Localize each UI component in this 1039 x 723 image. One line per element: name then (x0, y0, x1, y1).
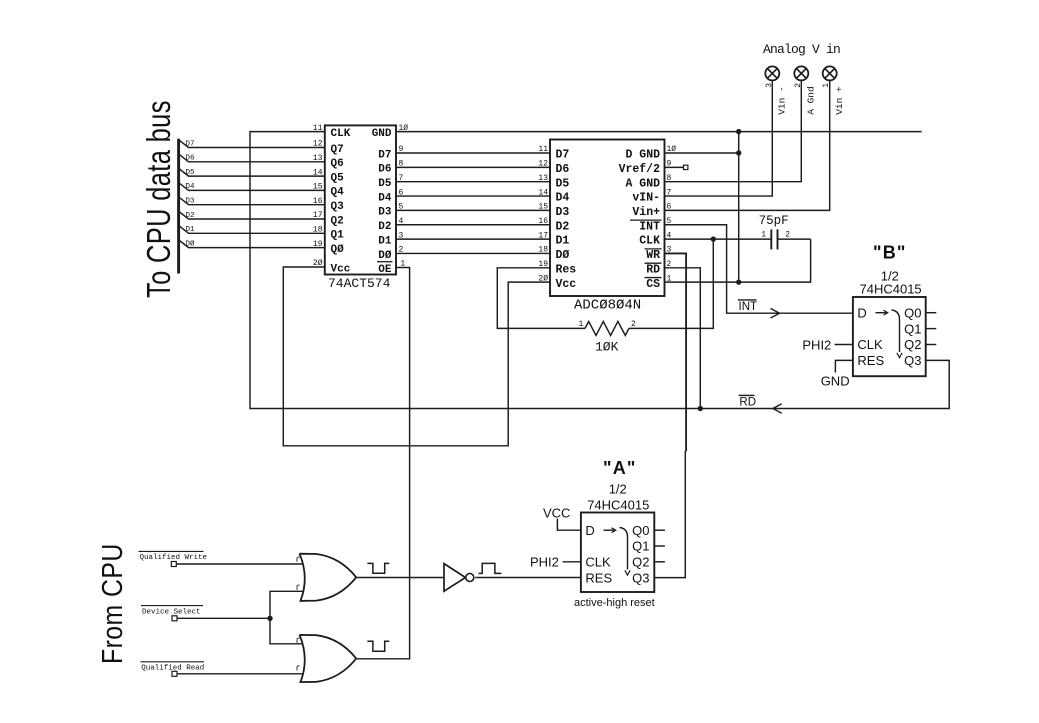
wire: PHI2 stub to U3 CLK (835, 344, 853, 346)
wire D6 (bus entry to U1 pin 13) (180, 155, 325, 162)
svg-text:17: 17 (313, 211, 323, 220)
node: D GND junction (736, 150, 741, 155)
svg-text:A Gnd: A Gnd (806, 86, 817, 115)
svg-text:74ACT574: 74ACT574 (328, 276, 391, 291)
wire: inverter output to U4 RES (475, 577, 581, 579)
pin numbers U2 right (10..1) (667, 145, 677, 283)
svg-text:Vref/2: Vref/2 (619, 163, 661, 176)
svg-text:To CPU data bus: To CPU data bus (141, 100, 178, 298)
wire: U3 Q0 stub (926, 312, 937, 314)
wire D7 (bus entry to U1 pin 12) (180, 140, 325, 147)
svg-text:D3: D3 (378, 207, 392, 219)
svg-text:CLK: CLK (331, 128, 351, 140)
svg-text:Analog V in: Analog V in (763, 42, 840, 57)
svg-text:D4: D4 (186, 183, 196, 191)
svg-text:CLK: CLK (585, 555, 611, 570)
wire: U2 CLK (pin 4) to capacitor C1 (665, 238, 771, 240)
wire: RD net (U1 CLK, long line, U3 Q3 loop) (250, 132, 949, 409)
resistor R1 10K (585, 321, 629, 335)
wire: R1 to U2 CLK pin 4 (629, 239, 713, 328)
svg-text:Q6: Q6 (331, 158, 344, 170)
bus bar: CPU data bus (177, 139, 180, 274)
svg-text:vIN-: vIN- (632, 192, 660, 205)
node: Device Select junction (267, 616, 272, 621)
wire U1 D2 (pin 4) to U2 pin 16 (396, 224, 550, 226)
svg-text:D6: D6 (378, 164, 391, 176)
svg-text:D2: D2 (186, 212, 195, 220)
connector pin: Qualified Read square (172, 671, 177, 676)
svg-text:12: 12 (313, 140, 323, 149)
svg-text:Q4: Q4 (331, 187, 345, 199)
svg-text:2: 2 (785, 230, 790, 239)
node: INT arrow (771, 308, 780, 318)
svg-text:74HC4015: 74HC4015 (587, 497, 649, 512)
svg-text:CLK: CLK (639, 235, 660, 248)
pin numbers U1 left (11,12..19,20) (313, 124, 323, 268)
IC U1 74ACT574 octal latch (325, 125, 396, 275)
connector pin: Qualified Write square (171, 562, 176, 567)
svg-text:From CPU: From CPU (97, 543, 129, 664)
svg-text:D6: D6 (556, 163, 570, 176)
svg-text:1/2: 1/2 (609, 482, 627, 497)
wire: U3 Q1 stub (926, 328, 937, 330)
wire: U2 CS (pin 1) run (665, 239, 811, 282)
svg-text:ADCØ8Ø4N: ADCØ8Ø4N (574, 298, 641, 314)
svg-text:GND: GND (372, 128, 392, 140)
node: RD arrow (773, 404, 782, 414)
wire: U2 Res (pin 19) to resistor R1 (497, 268, 585, 329)
svg-text:D1: D1 (378, 235, 392, 247)
svg-text:1ØK: 1ØK (595, 340, 619, 355)
node: gate input hooks (tiny marks) (297, 557, 300, 670)
wire: C1 right to CS run (778, 238, 810, 240)
svg-text:D7: D7 (556, 149, 570, 162)
wire: Vin- connector to U2 pin 7 (665, 80, 773, 196)
node: RD junction (698, 406, 703, 411)
svg-text:D3: D3 (556, 206, 570, 219)
wire D3 (bus entry to U1 pin 16) (180, 198, 325, 205)
svg-text:Vcc: Vcc (331, 263, 351, 275)
svg-text:18: 18 (313, 226, 323, 235)
svg-text:active-high reset: active-high reset (574, 597, 655, 609)
wire: G1 output to inverter U5 (357, 577, 444, 579)
svg-text:DØ: DØ (556, 249, 570, 262)
wire: Device Select to both OR gates (177, 617, 270, 619)
pulse symbol: negative pulse (read) (367, 641, 389, 651)
svg-text:D5: D5 (556, 177, 570, 190)
svg-text:2: 2 (631, 320, 636, 329)
wire U1 D6 (pin 8) to U2 pin 12 (396, 166, 550, 168)
svg-text:D5: D5 (378, 178, 392, 190)
capacitor C1 75pF (771, 229, 777, 249)
svg-text:"A": "A" (603, 458, 637, 478)
svg-text:Vin -: Vin - (777, 86, 788, 115)
OR gate G1 (write) (300, 554, 357, 601)
svg-text:RD: RD (739, 396, 756, 408)
svg-text:1: 1 (579, 320, 584, 329)
node: GND/long-line junction (736, 129, 741, 134)
wire U1 D5 (pin 7) to U2 pin 13 (396, 181, 550, 183)
svg-text:D2: D2 (556, 220, 570, 233)
svg-text:D: D (857, 305, 866, 320)
pulse symbol: negative pulse (write) (367, 563, 389, 573)
svg-text:RES: RES (857, 353, 884, 368)
wire: U4 Q1 stub (654, 545, 665, 547)
wire D4 (bus entry to U1 pin 15) (180, 183, 325, 190)
svg-text:DØ: DØ (378, 250, 392, 262)
svg-text:Q3: Q3 (632, 570, 649, 585)
svg-text:74HC4015: 74HC4015 (860, 281, 922, 296)
wire U1 D3 (pin 5) to U2 pin 15 (396, 209, 550, 211)
wire: A Gnd connector to U2 pin 8 (665, 80, 802, 181)
svg-text:Q0: Q0 (632, 523, 649, 538)
svg-text:RD: RD (646, 263, 660, 276)
wire: PHI2 stub to U4 CLK (563, 561, 581, 563)
wire: U2 Vref/2 (pin 9) no-connect stub (665, 166, 685, 168)
svg-text:Device Select: Device Select (142, 608, 201, 616)
svg-text:Q2: Q2 (904, 337, 921, 352)
OR gate G2 (read) (300, 635, 357, 682)
wire: GND net vertical drop (738, 132, 740, 283)
wire: Vcc net U1 pin 20 to U2 pin 20 (283, 267, 550, 446)
svg-text:Q7: Q7 (331, 144, 344, 156)
svg-text:INT: INT (739, 301, 758, 313)
wire: U1 OE (pin 1) to read OR gate output (357, 268, 410, 659)
svg-text:D4: D4 (556, 192, 570, 205)
svg-text:GND: GND (821, 374, 850, 389)
svg-text:19: 19 (313, 240, 323, 249)
svg-text:D5: D5 (186, 169, 196, 177)
svg-text:QØ: QØ (331, 244, 345, 256)
svg-text:D3: D3 (186, 198, 196, 206)
node: CS junction (736, 279, 741, 284)
svg-text:Q3: Q3 (331, 201, 345, 213)
wire: Qualified Read to OR gate G2 (177, 673, 303, 675)
svg-text:D1: D1 (186, 226, 196, 234)
svg-text:Res: Res (556, 263, 577, 276)
IC U4 74HC4015 (half A) (581, 513, 654, 593)
pulse symbol: positive pulse (479, 563, 502, 573)
svg-text:PHI2: PHI2 (802, 338, 831, 353)
svg-text:D1: D1 (556, 235, 570, 248)
svg-text:15: 15 (313, 183, 323, 192)
svg-text:D4: D4 (378, 192, 392, 204)
svg-text:Vin +: Vin + (834, 86, 845, 115)
svg-text:WR: WR (646, 249, 660, 262)
svg-text:Vin+: Vin+ (632, 206, 660, 219)
inverter U5 (444, 564, 474, 592)
wire D5 (bus entry to U1 pin 14) (180, 169, 325, 176)
svg-text:D GND: D GND (625, 149, 660, 162)
svg-text:1: 1 (761, 230, 766, 239)
svg-text:14: 14 (313, 168, 323, 177)
svg-text:"B": "B" (873, 243, 907, 263)
svg-text:D7: D7 (186, 140, 195, 148)
svg-text:D2: D2 (378, 221, 391, 233)
wire: GND net horizontal from U1 pin 10 (396, 131, 922, 133)
svg-text:Q3: Q3 (904, 353, 921, 368)
svg-text:75pF: 75pF (759, 214, 789, 228)
connector pin: Device Select square (172, 616, 177, 621)
wire D0 (bus entry to U1 pin 19) (180, 241, 325, 248)
wire: WR net lower segment to U4 Q3 (654, 451, 685, 578)
svg-text:Q0: Q0 (904, 305, 921, 320)
svg-text:A GND: A GND (625, 177, 660, 190)
svg-text:Q1: Q1 (632, 539, 649, 554)
svg-text:Q1: Q1 (331, 230, 345, 242)
connector J2 (pin 2, A Gnd) circle-X (794, 66, 808, 80)
wire: Vin+ connector to U2 pin 6 (665, 80, 830, 210)
wire: U3 Q2 stub (926, 344, 937, 346)
svg-text:PHI2: PHI2 (530, 555, 559, 570)
wire: Qualified Write to OR gate G1 (176, 563, 303, 565)
ground GND (U3 RES) (835, 360, 853, 372)
svg-text:Q2: Q2 (632, 555, 649, 570)
IC U3 74HC4015 (half B) (853, 297, 926, 376)
svg-text:VCC: VCC (543, 505, 570, 520)
svg-text:RES: RES (585, 570, 612, 585)
wire D1 (bus entry to U1 pin 18) (180, 226, 325, 233)
svg-text:D6: D6 (186, 155, 196, 163)
svg-text:OE: OE (378, 264, 392, 276)
svg-text:CLK: CLK (857, 337, 883, 352)
wire: U2 D GND (pin 10) stub (665, 152, 739, 154)
svg-text:D7: D7 (378, 149, 391, 161)
svg-text:Q5: Q5 (331, 172, 345, 184)
wire U1 D0 (pin 2) to U2 pin 18 (396, 252, 550, 254)
svg-text:16: 16 (313, 197, 323, 206)
connector J1 (pin 3, Vin -) circle-X (765, 66, 779, 80)
wire U1 D4 (pin 6) to U2 pin 14 (396, 195, 550, 197)
wire: U4 Q2 stub (654, 561, 665, 563)
svg-text:Vcc: Vcc (556, 278, 577, 291)
wire: U2 RD (pin 2) drop to RD line (665, 268, 701, 409)
IC U2 ADC0804N (550, 140, 665, 297)
svg-text:DØ: DØ (186, 239, 196, 248)
node: CLK/R junction (711, 236, 716, 241)
connector J3 (pin 1, Vin +) circle-X (823, 66, 837, 80)
svg-text:Q2: Q2 (331, 215, 344, 227)
wire U1 D1 (pin 3) to U2 pin 17 (396, 238, 550, 240)
pin numbers U2 left (11..20) (538, 145, 548, 283)
wire: INT net from U2 pin 5 to U3 D (665, 225, 853, 313)
svg-text:13: 13 (313, 154, 323, 163)
wire: U4 Q0 stub (654, 529, 665, 531)
svg-text:INT: INT (639, 220, 660, 233)
wire D2 (bus entry to U1 pin 17) (180, 212, 325, 219)
pin numbers U1 right (10,9..2,1) (399, 124, 409, 269)
svg-text:D: D (585, 523, 594, 538)
svg-text:CS: CS (646, 278, 660, 291)
svg-text:Q1: Q1 (904, 321, 921, 336)
wire: U2 WR (pin 3) to U4 Q3 (665, 253, 687, 451)
node: Vref/2 open square (684, 165, 688, 169)
wire U1 D7 (pin 9) to U2 pin 11 (396, 152, 550, 154)
